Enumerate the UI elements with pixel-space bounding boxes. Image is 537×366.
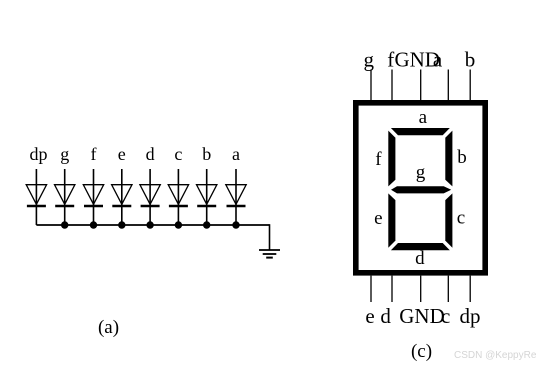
watermark: [454, 350, 537, 361]
segment b: [445, 131, 452, 187]
pin label c (bottom): [441, 304, 450, 328]
segment label d: [415, 248, 425, 269]
pin g top lead: [370, 70, 372, 101]
pin label a (top): [433, 47, 443, 71]
svg-text:b: b: [457, 147, 467, 168]
svg-text:dp: dp: [460, 304, 481, 328]
svg-text:f: f: [91, 144, 97, 164]
segment c: [445, 193, 452, 247]
svg-text:c: c: [441, 304, 450, 328]
segment label b: [457, 147, 467, 168]
svg-text:d: d: [380, 304, 391, 328]
diode e (LED segment e): [112, 169, 132, 225]
svg-text:a: a: [419, 107, 428, 128]
svg-text:f: f: [387, 47, 394, 71]
svg-text:GND: GND: [399, 304, 445, 328]
node label d: [146, 144, 155, 164]
pin b top lead: [469, 70, 471, 101]
node label a: [232, 144, 240, 164]
segment d: [391, 243, 450, 250]
pin dp bottom lead: [469, 276, 471, 302]
junction dot c: [175, 221, 182, 228]
diode a (LED segment a): [226, 169, 246, 225]
pin label e (bottom): [365, 304, 374, 328]
diode g (LED segment g): [55, 169, 75, 225]
pin label d (bottom): [380, 304, 391, 328]
wire to ground: [269, 224, 271, 250]
svg-text:e: e: [118, 144, 126, 164]
svg-text:b: b: [465, 47, 476, 71]
svg-text:CSDN @KeppyRerr: CSDN @KeppyRerr: [454, 350, 537, 361]
svg-text:c: c: [174, 144, 182, 164]
svg-text:d: d: [146, 144, 155, 164]
caption (c): [411, 341, 432, 362]
pin label g (top): [364, 47, 375, 71]
segment label a: [419, 107, 428, 128]
junction dot f: [90, 221, 97, 228]
svg-text:b: b: [202, 144, 211, 164]
pin label f (top): [387, 47, 394, 71]
segment a: [391, 128, 450, 135]
junction dot b: [203, 221, 210, 228]
diode dp (LED segment dp): [26, 169, 46, 225]
caption (a): [98, 317, 119, 338]
svg-text:g: g: [364, 47, 375, 71]
diode f (LED segment f): [83, 169, 103, 225]
diode c (LED segment c): [168, 169, 188, 225]
svg-text:e: e: [365, 304, 374, 328]
segment label f: [375, 149, 382, 170]
junction dot d: [146, 221, 153, 228]
pin f top lead: [391, 70, 393, 101]
svg-text:c: c: [457, 208, 465, 229]
junction dot g: [61, 221, 68, 228]
svg-text:a: a: [433, 47, 443, 71]
node label c: [174, 144, 182, 164]
svg-text:(a): (a): [98, 317, 119, 338]
segment label g: [416, 162, 426, 183]
pin GND bottom lead: [420, 276, 422, 302]
node label b: [202, 144, 211, 164]
pin a top lead: [447, 70, 449, 101]
svg-text:f: f: [375, 149, 382, 170]
diode d (LED segment d): [140, 169, 160, 225]
junction dot e: [118, 221, 125, 228]
display package U1 outline: [356, 103, 485, 273]
node label g: [60, 144, 69, 164]
pin GND top lead: [420, 70, 422, 101]
segment g: [391, 186, 451, 193]
svg-text:g: g: [416, 162, 426, 183]
pin label GND (top): [394, 47, 440, 71]
segment f: [388, 131, 395, 187]
segment label e: [374, 208, 382, 229]
svg-text:g: g: [60, 144, 69, 164]
node label e: [118, 144, 126, 164]
svg-text:a: a: [232, 144, 240, 164]
segment e: [388, 193, 395, 247]
svg-text:e: e: [374, 208, 382, 229]
segment label c: [457, 208, 465, 229]
pin d bottom lead: [391, 276, 393, 302]
pin label b (top): [465, 47, 476, 71]
pin e bottom lead: [370, 276, 372, 302]
diode b (LED segment b): [197, 169, 217, 225]
svg-text:(c): (c): [411, 341, 432, 362]
node label dp: [30, 144, 48, 164]
junction dot a: [232, 221, 239, 228]
wire common-cathode bus: [36, 224, 269, 226]
pin label dp (bottom): [460, 304, 481, 328]
pin c bottom lead: [447, 276, 449, 302]
pin label GND (bottom): [399, 304, 445, 328]
svg-text:d: d: [415, 248, 425, 269]
node label f: [91, 144, 97, 164]
svg-text:dp: dp: [30, 144, 48, 164]
ground: [259, 250, 280, 258]
